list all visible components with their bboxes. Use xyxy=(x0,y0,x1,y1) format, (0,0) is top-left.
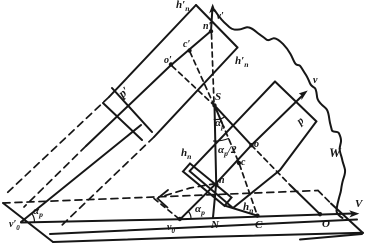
label v near arrow xyxy=(313,76,317,86)
plate p top end cap xyxy=(275,82,316,122)
plate p bottom end cap xyxy=(190,171,233,208)
label o right plate point xyxy=(254,140,259,150)
extra bottom-right edge stroke xyxy=(300,234,362,240)
plate p edge 2 (lower-right long edge) xyxy=(233,121,316,208)
vertical line S to n to N xyxy=(213,105,216,217)
dot at v0 junction xyxy=(178,217,182,221)
label C xyxy=(255,220,262,231)
label p' on plate xyxy=(116,84,131,99)
label c right plate point xyxy=(241,158,245,168)
dashed line c' to S xyxy=(190,52,214,104)
label h_n left of small plate xyxy=(181,148,191,161)
dot n' xyxy=(209,29,213,33)
V axis line from v0' vertex to V arrow xyxy=(21,214,353,223)
label p on right plate xyxy=(295,116,306,128)
label alpha_p at S xyxy=(215,118,225,131)
dot O xyxy=(318,212,322,216)
plate p' edge 1 dashed extension xyxy=(7,97,109,193)
plate p' edge 2 dashed extension xyxy=(24,146,86,207)
v' arrowhead xyxy=(210,5,216,13)
label S xyxy=(215,92,221,103)
h_n' normal line at top (A to K1) xyxy=(196,5,238,48)
label n' xyxy=(203,22,211,32)
trace line from v0' vertex up to plate p' end xyxy=(21,125,141,222)
ground plane left edge xyxy=(3,203,53,242)
label h_n top left xyxy=(176,0,190,13)
v' arrow from n' upward xyxy=(211,7,213,31)
label c' xyxy=(183,40,190,50)
plate p edge 1 (upper-left long edge) xyxy=(190,82,275,172)
dot S xyxy=(212,103,216,107)
ground plane right edge dashed part xyxy=(318,191,331,204)
dashed line o' to S xyxy=(172,66,213,104)
ground plane lower front edge xyxy=(53,233,363,242)
label O xyxy=(322,219,330,230)
angle arc alpha_p/2 at S xyxy=(214,139,229,142)
dashed arrow from n pointing left xyxy=(162,184,216,197)
label V xyxy=(355,199,362,210)
normal-plane trace dashed continuation xyxy=(60,137,154,227)
dashed line n' to S xyxy=(212,34,215,103)
line S to o (solid) xyxy=(215,105,252,145)
dot o' xyxy=(169,62,173,66)
dashed line S-c-C xyxy=(222,123,257,216)
ground plane right edge solid part xyxy=(331,204,363,234)
small plate (normal cross-section) around n xyxy=(183,164,232,206)
ground plane front edge xyxy=(50,220,357,235)
left arrowhead of dashed n arrow (open barbs) xyxy=(158,190,169,199)
dashed line o to O upper part xyxy=(251,145,290,185)
angle arc alpha_p at v0 junction xyxy=(188,211,191,219)
plate p' edge 1 (upper-left long edge, solid) xyxy=(109,5,196,97)
h_n segment from small plate corner Q to C xyxy=(225,206,258,216)
dot C xyxy=(255,214,259,218)
label alpha_p at v0 junction xyxy=(195,204,205,217)
plate p' left end cap (outer) xyxy=(112,88,152,132)
dot c xyxy=(237,161,241,165)
dot n xyxy=(214,182,218,186)
plate p' left end cap (inner) xyxy=(103,103,142,140)
label h_n' right of top plate xyxy=(235,56,249,69)
short dashed segment into v0 junction from upper left xyxy=(154,199,178,219)
angle arc alpha_p at v0' vertex xyxy=(32,214,35,222)
label h_n bottom xyxy=(243,202,253,215)
line S to c solid head xyxy=(215,105,223,123)
label v_0' at left vertex xyxy=(9,220,20,232)
dot c' xyxy=(187,48,191,52)
label N xyxy=(211,220,219,231)
label n at small plate xyxy=(219,176,225,186)
label v' xyxy=(217,12,224,22)
velocity line v0 junction through n and o to v arrow xyxy=(181,95,303,218)
normal-plane trace line from K1 down-left (solid part) xyxy=(154,48,238,138)
label W xyxy=(329,146,341,159)
label o' xyxy=(164,56,172,66)
line o to O solid tail xyxy=(290,185,320,214)
V axis arrowhead xyxy=(350,211,359,217)
v arrowhead xyxy=(300,91,308,100)
label alpha_p at v0' vertex xyxy=(33,206,43,219)
wavy boundary W xyxy=(215,10,346,218)
label alpha_p/2 at S xyxy=(218,145,237,158)
ground plane back edge (dashed) xyxy=(3,191,318,204)
label v_0 bottom middle xyxy=(167,223,175,235)
dot o xyxy=(249,143,253,147)
angle arc alpha_p at S xyxy=(214,117,225,120)
plate p' edge 2 (lower-right long edge through o', c') xyxy=(86,31,211,146)
